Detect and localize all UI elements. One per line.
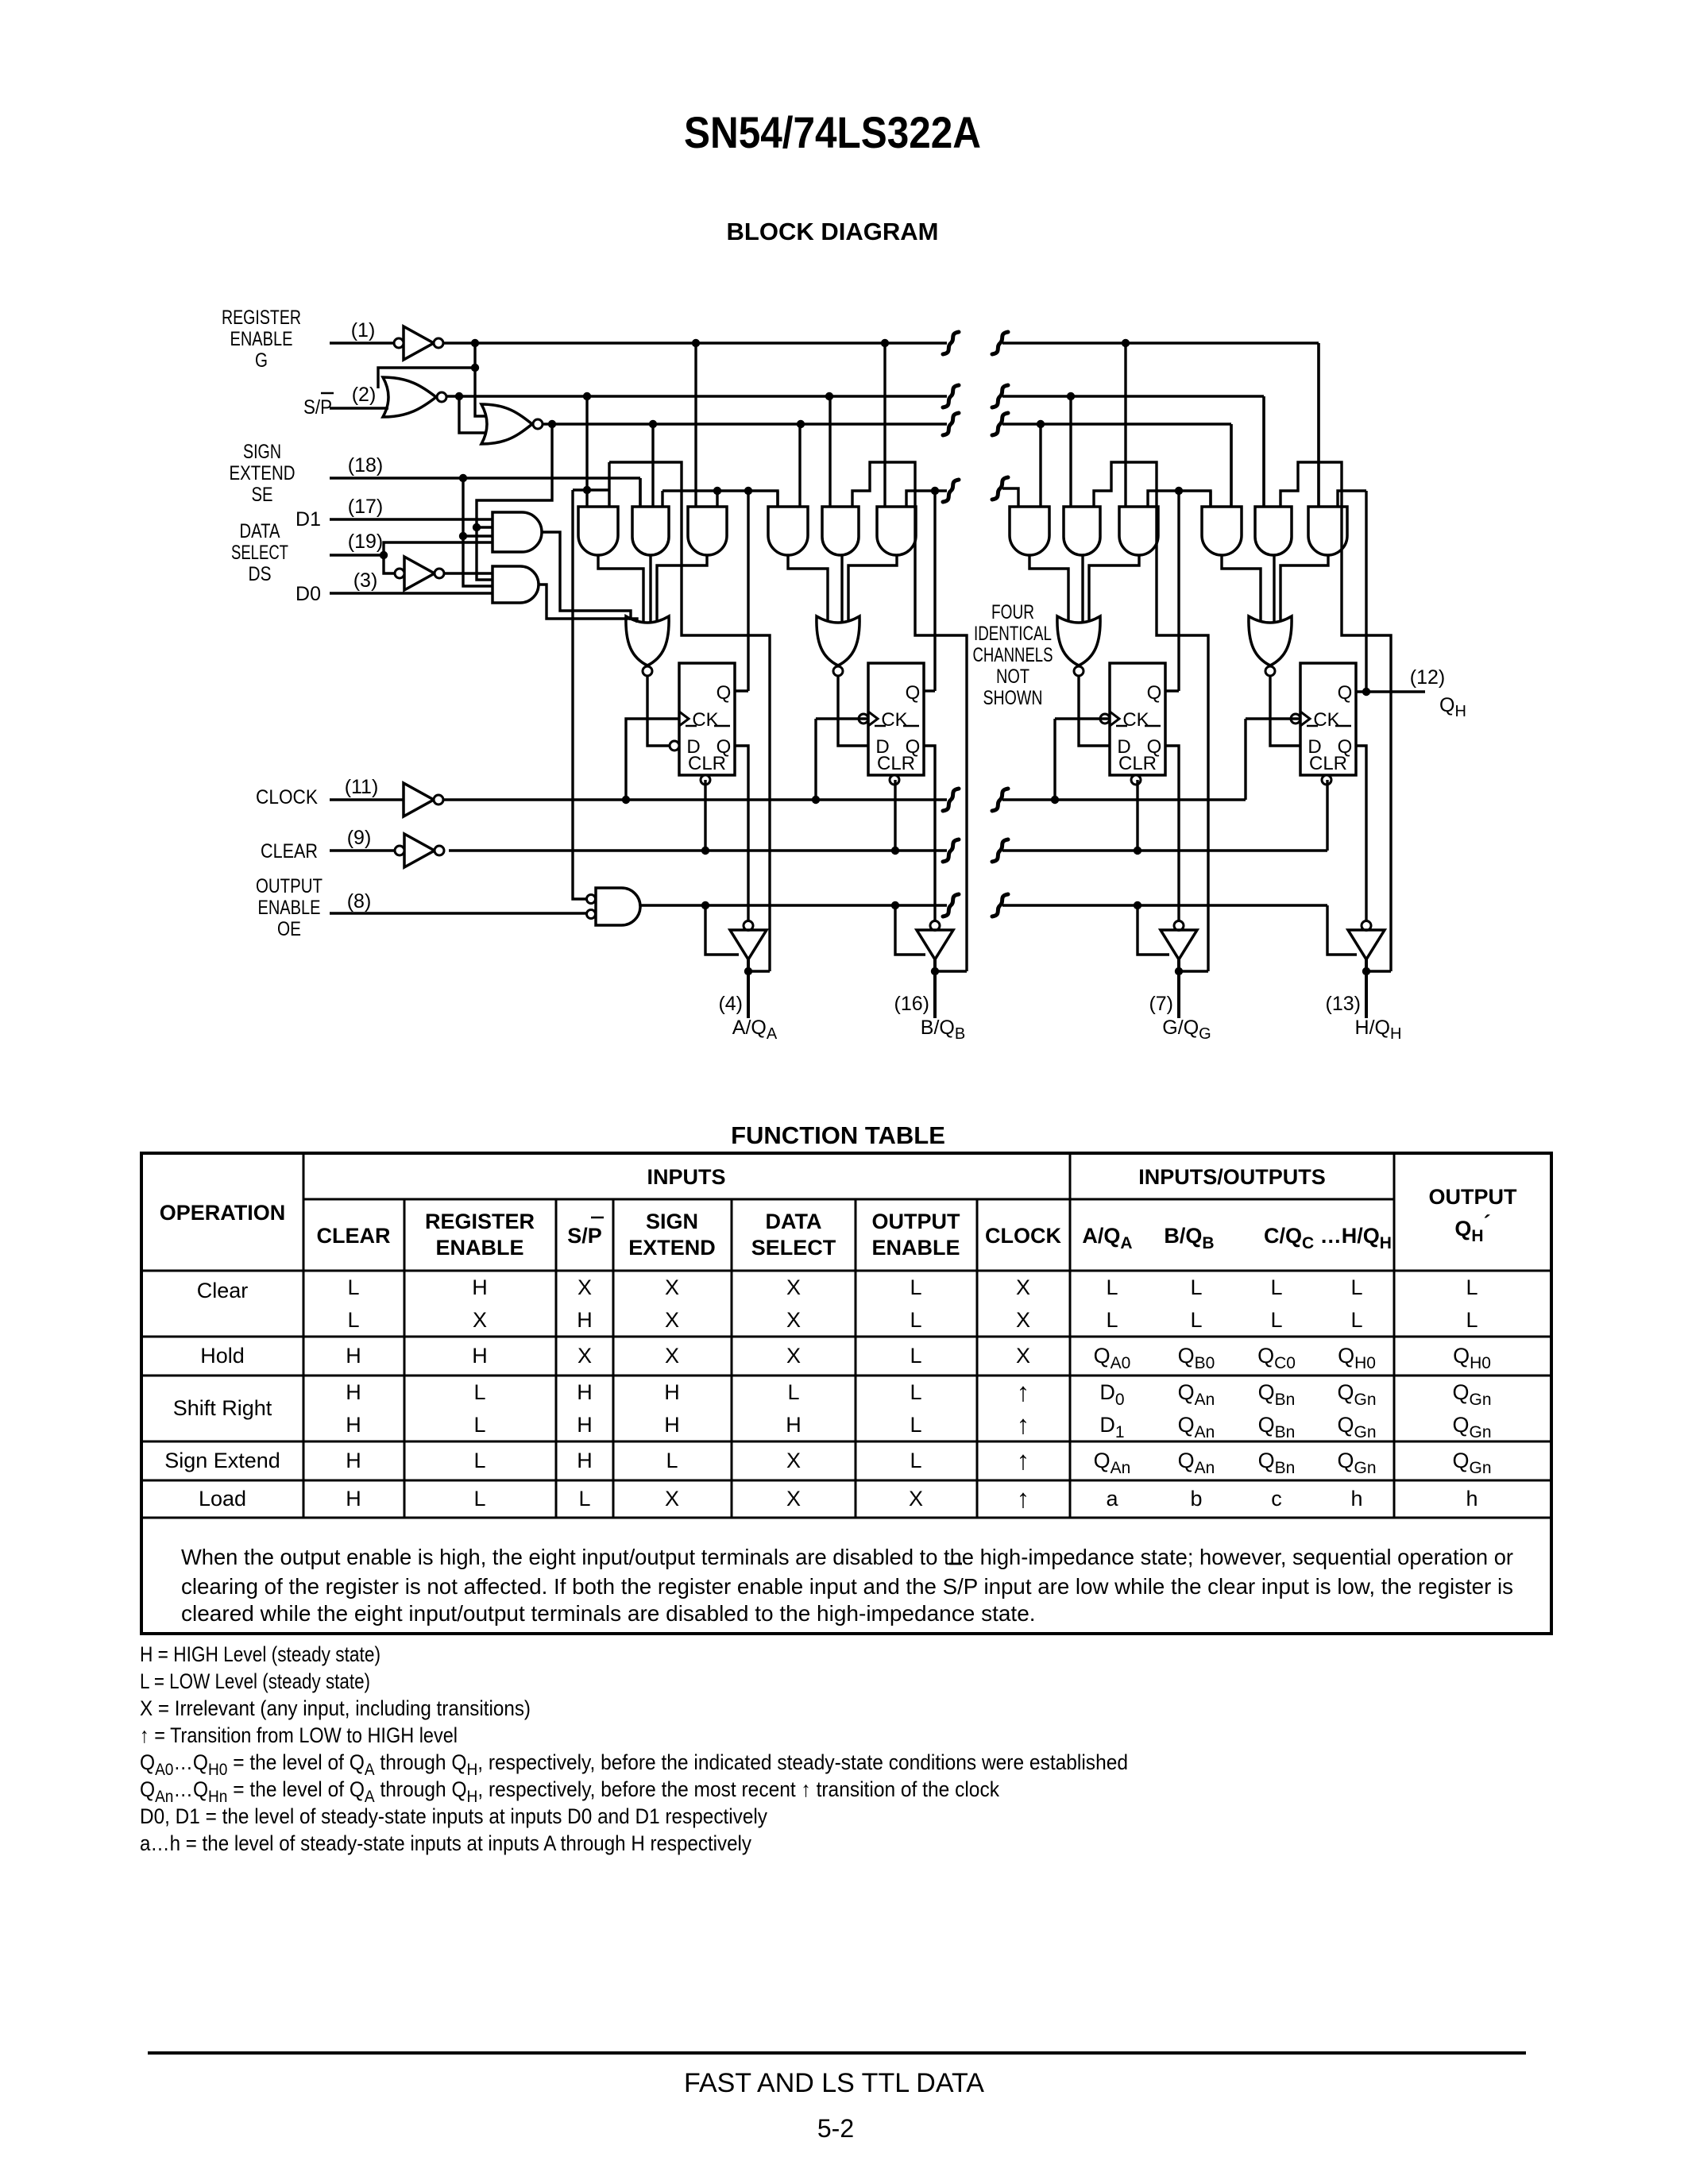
svg-text:(17): (17) — [348, 496, 383, 518]
svg-text:SN54/74LS322A: SN54/74LS322A — [684, 107, 981, 157]
svg-text:↑ = Transition from LOW to HIG: ↑ = Transition from LOW to HIGH level — [140, 1723, 458, 1747]
svg-text:L: L — [910, 1380, 921, 1404]
svg-text:ENABLE: ENABLE — [258, 897, 321, 919]
svg-text:NOT: NOT — [996, 666, 1029, 688]
svg-text:(18): (18) — [348, 454, 383, 477]
svg-text:L: L — [910, 1344, 921, 1368]
svg-text:Hold: Hold — [200, 1344, 245, 1368]
svg-text:a…h = the level of steady-stat: a…h = the level of steady-state inputs a… — [140, 1831, 751, 1855]
svg-text:ENABLE: ENABLE — [871, 1236, 960, 1260]
svg-text:L: L — [473, 1487, 485, 1511]
svg-text:CK: CK — [1122, 709, 1149, 731]
svg-text:X = Irrelevant (any input, inc: X = Irrelevant (any input, including tra… — [140, 1696, 531, 1720]
svg-text:H: H — [786, 1413, 802, 1437]
svg-text:EXTEND: EXTEND — [230, 462, 295, 484]
svg-text:(4): (4) — [718, 993, 743, 1015]
svg-text:X: X — [786, 1308, 801, 1332]
svg-text:ENABLE: ENABLE — [230, 328, 293, 350]
svg-text:DATA: DATA — [240, 520, 280, 542]
svg-text:L: L — [910, 1308, 921, 1332]
svg-text:D0: D0 — [295, 583, 321, 605]
svg-text:OPERATION: OPERATION — [160, 1201, 286, 1225]
svg-text:L = LOW Level (steady state): L = LOW Level (steady state) — [140, 1669, 370, 1693]
svg-text:X: X — [577, 1344, 592, 1368]
svg-text:(8): (8) — [347, 890, 372, 913]
svg-text:Q: Q — [1338, 682, 1353, 704]
svg-text:CHANNELS: CHANNELS — [973, 644, 1053, 666]
svg-text:X: X — [665, 1275, 679, 1299]
svg-text:OE: OE — [277, 918, 301, 940]
svg-text:X: X — [786, 1487, 801, 1511]
svg-text:L: L — [1270, 1308, 1282, 1332]
svg-text:REGISTER: REGISTER — [222, 307, 301, 329]
svg-text:CLOCK: CLOCK — [256, 786, 318, 808]
svg-text:Clear: Clear — [197, 1279, 249, 1302]
svg-text:SHOWN: SHOWN — [983, 687, 1043, 709]
svg-text:H: H — [664, 1413, 680, 1437]
svg-text:X: X — [786, 1275, 801, 1299]
svg-text:X: X — [909, 1487, 923, 1511]
svg-text:H: H — [346, 1487, 361, 1511]
svg-text:Q: Q — [906, 682, 921, 704]
svg-text:(9): (9) — [347, 827, 372, 849]
svg-text:When the output enable is high: When the output enable is high, the eigh… — [181, 1545, 1513, 1569]
svg-text:L: L — [910, 1275, 921, 1299]
svg-text:H: H — [577, 1413, 593, 1437]
svg-text:H: H — [577, 1449, 593, 1472]
svg-text:CK: CK — [692, 709, 718, 731]
svg-text:BLOCK DIAGRAM: BLOCK DIAGRAM — [727, 218, 939, 245]
svg-text:DS: DS — [249, 563, 272, 585]
svg-text:(16): (16) — [894, 993, 929, 1015]
svg-text:L: L — [666, 1449, 678, 1472]
svg-text:(3): (3) — [353, 569, 378, 592]
svg-text:(12): (12) — [1410, 666, 1445, 689]
svg-text:ENABLE: ENABLE — [435, 1236, 523, 1260]
svg-text:↑: ↑ — [1017, 1445, 1030, 1475]
svg-text:L: L — [473, 1380, 485, 1404]
svg-text:L: L — [1270, 1275, 1282, 1299]
svg-text:L: L — [1350, 1308, 1362, 1332]
svg-text:H: H — [472, 1275, 488, 1299]
svg-text:CLOCK: CLOCK — [985, 1224, 1061, 1248]
svg-text:L: L — [1190, 1275, 1202, 1299]
svg-text:h: h — [1350, 1487, 1362, 1511]
svg-text:H: H — [346, 1413, 361, 1437]
svg-text:FUNCTION TABLE: FUNCTION TABLE — [731, 1121, 945, 1149]
svg-text:X: X — [577, 1275, 592, 1299]
svg-text:5-2: 5-2 — [817, 2114, 854, 2143]
svg-text:cleared while the eight input/: cleared while the eight input/output ter… — [181, 1601, 1036, 1626]
svg-text:b: b — [1190, 1487, 1202, 1511]
svg-text:H: H — [346, 1449, 361, 1472]
svg-text:↑: ↑ — [1017, 1410, 1030, 1439]
svg-text:L: L — [1106, 1275, 1118, 1299]
svg-text:(2): (2) — [352, 384, 377, 406]
svg-text:SELECT: SELECT — [231, 542, 288, 564]
svg-text:L: L — [1466, 1275, 1477, 1299]
svg-text:(19): (19) — [348, 531, 383, 553]
svg-text:c: c — [1271, 1487, 1282, 1511]
svg-text:L: L — [347, 1308, 359, 1332]
svg-text:CK: CK — [1313, 709, 1339, 731]
svg-text:X: X — [665, 1344, 679, 1368]
svg-text:REGISTER: REGISTER — [425, 1210, 535, 1233]
svg-text:Q: Q — [717, 682, 732, 704]
svg-text:H: H — [577, 1380, 593, 1404]
svg-text:Load: Load — [199, 1487, 246, 1511]
svg-text:X: X — [1016, 1308, 1030, 1332]
svg-text:L: L — [473, 1413, 485, 1437]
svg-text:INPUTS/OUTPUTS: INPUTS/OUTPUTS — [1138, 1165, 1326, 1189]
svg-text:S/P: S/P — [303, 396, 332, 419]
svg-text:X: X — [1016, 1275, 1030, 1299]
svg-text:L: L — [578, 1487, 590, 1511]
svg-text:EXTEND: EXTEND — [628, 1236, 716, 1260]
svg-text:clearing of the register is no: clearing of the register is not affected… — [181, 1574, 1513, 1599]
svg-text:↑: ↑ — [1017, 1484, 1030, 1513]
svg-text:L: L — [910, 1413, 921, 1437]
svg-text:X: X — [665, 1487, 679, 1511]
svg-text:L: L — [1190, 1308, 1202, 1332]
svg-text:(7): (7) — [1149, 993, 1173, 1015]
svg-text:H: H — [346, 1344, 361, 1368]
svg-text:H: H — [664, 1380, 680, 1404]
svg-text:OUTPUT: OUTPUT — [256, 875, 323, 897]
svg-text:L: L — [787, 1380, 799, 1404]
svg-text:H: H — [577, 1308, 593, 1332]
svg-text:CLEAR: CLEAR — [317, 1224, 391, 1248]
svg-text:OUTPUT: OUTPUT — [872, 1210, 961, 1233]
svg-text:(1): (1) — [351, 319, 376, 341]
svg-text:CLEAR: CLEAR — [261, 840, 318, 862]
svg-text:IDENTICAL: IDENTICAL — [974, 623, 1052, 645]
svg-text:G: G — [255, 349, 268, 372]
svg-text:H = HIGH Level (steady state): H = HIGH Level (steady state) — [140, 1642, 380, 1666]
svg-text:L: L — [1350, 1275, 1362, 1299]
svg-text:a: a — [1106, 1487, 1118, 1511]
svg-text:X: X — [473, 1308, 487, 1332]
svg-text:SE: SE — [252, 484, 273, 506]
svg-text:L: L — [910, 1449, 921, 1472]
svg-text:X: X — [665, 1308, 679, 1332]
svg-text:Shift Right: Shift Right — [173, 1396, 272, 1420]
svg-text:S/P: S/P — [567, 1224, 602, 1248]
svg-text:CLR: CLR — [877, 753, 915, 774]
svg-text:SIGN: SIGN — [243, 441, 281, 463]
svg-text:Sign Extend: Sign Extend — [164, 1449, 280, 1472]
svg-text:CLR: CLR — [688, 753, 726, 774]
svg-text:SIGN: SIGN — [646, 1210, 698, 1233]
svg-text:D0, D1 = the level of steady-s: D0, D1 = the level of steady-state input… — [140, 1804, 767, 1828]
svg-text:L: L — [1466, 1308, 1477, 1332]
svg-text:(11): (11) — [345, 776, 379, 798]
svg-text:X: X — [1016, 1344, 1030, 1368]
svg-text:X: X — [786, 1449, 801, 1472]
svg-text:FOUR: FOUR — [991, 601, 1034, 623]
svg-text:CK: CK — [881, 709, 907, 731]
svg-text:L: L — [1106, 1308, 1118, 1332]
svg-text:CLR: CLR — [1118, 753, 1157, 774]
svg-text:L: L — [473, 1449, 485, 1472]
svg-text:Q: Q — [1147, 682, 1162, 704]
svg-text:INPUTS: INPUTS — [647, 1165, 725, 1189]
svg-text:H: H — [472, 1344, 488, 1368]
svg-text:X: X — [786, 1344, 801, 1368]
svg-text:(13): (13) — [1326, 993, 1361, 1015]
svg-text:SELECT: SELECT — [751, 1236, 836, 1260]
svg-text:DATA: DATA — [766, 1210, 822, 1233]
svg-text:↑: ↑ — [1017, 1377, 1030, 1406]
svg-text:h: h — [1466, 1487, 1477, 1511]
svg-text:H: H — [346, 1380, 361, 1404]
svg-text:FAST AND LS TTL DATA: FAST AND LS TTL DATA — [684, 2068, 984, 2098]
svg-text:D1: D1 — [295, 508, 321, 531]
svg-text:L: L — [347, 1275, 359, 1299]
svg-text:CLR: CLR — [1309, 753, 1347, 774]
svg-text:OUTPUT: OUTPUT — [1429, 1185, 1518, 1209]
